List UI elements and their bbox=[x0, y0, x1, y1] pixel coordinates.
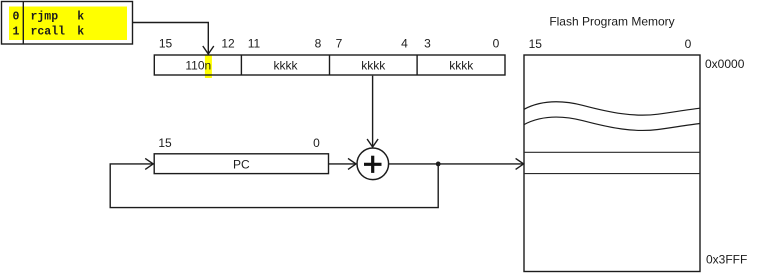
svg-text:110n: 110n bbox=[185, 58, 211, 72]
svg-text:15: 15 bbox=[158, 136, 172, 150]
svg-text:8: 8 bbox=[315, 36, 322, 50]
svg-text:k: k bbox=[77, 11, 84, 24]
svg-text:0: 0 bbox=[313, 136, 320, 150]
svg-text:15: 15 bbox=[529, 37, 543, 51]
svg-text:kkkk: kkkk bbox=[274, 58, 299, 72]
svg-text:1: 1 bbox=[13, 26, 20, 39]
svg-text:k: k bbox=[77, 26, 84, 39]
svg-text:0: 0 bbox=[685, 37, 692, 51]
svg-text:Flash Program Memory: Flash Program Memory bbox=[549, 15, 674, 29]
svg-text:3: 3 bbox=[424, 36, 431, 50]
svg-text:0x3FFF: 0x3FFF bbox=[706, 253, 747, 267]
svg-text:rjmp: rjmp bbox=[31, 11, 59, 24]
svg-text:0: 0 bbox=[13, 11, 20, 24]
svg-text:12: 12 bbox=[221, 36, 235, 50]
svg-text:4: 4 bbox=[401, 36, 408, 50]
svg-text:kkkk: kkkk bbox=[361, 58, 386, 72]
svg-text:11: 11 bbox=[248, 36, 261, 50]
svg-text:kkkk: kkkk bbox=[449, 58, 474, 72]
svg-text:0: 0 bbox=[493, 36, 500, 50]
svg-text:rcall: rcall bbox=[31, 26, 66, 39]
svg-text:PC: PC bbox=[233, 158, 250, 172]
svg-text:7: 7 bbox=[336, 36, 343, 50]
svg-text:0x0000: 0x0000 bbox=[705, 57, 745, 71]
svg-text:15: 15 bbox=[159, 36, 173, 50]
